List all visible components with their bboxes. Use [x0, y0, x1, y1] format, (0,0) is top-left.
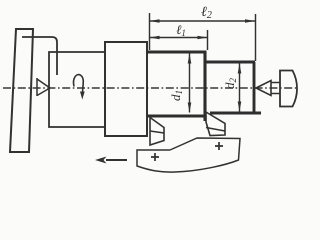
tailstock center neck: [271, 83, 280, 94]
centerline (axis, dash-dot): [3, 87, 296, 89]
dimension d1: [189, 54, 191, 113]
label l1: [176, 22, 186, 38]
driving dog (clamp): [22, 37, 57, 75]
label l2: [201, 5, 212, 21]
plus mark right: [215, 142, 223, 150]
dead center (left, cone at headstock): [37, 78, 50, 96]
dimension d2: [239, 64, 241, 112]
tailstock quill body: [280, 71, 297, 107]
label d2 (rotated): [222, 78, 238, 90]
collar (largest step of workpiece): [105, 42, 147, 136]
cutting tool 2 (at d2 shoulder): [206, 112, 225, 136]
extension line l2 right: [255, 14, 257, 61]
workpiece left journal (section A): [49, 52, 105, 127]
rotation arrow: [74, 75, 84, 93]
plus mark left: [151, 153, 159, 161]
cylinder d1 (machined step, thick lines): [147, 51, 205, 122]
label d1 (rotated): [168, 90, 184, 101]
feed arrow (longitudinal feed, pointing left): [106, 159, 127, 161]
dimension l2: [150, 20, 256, 22]
dimension l1: [150, 37, 208, 39]
faceplate (headstock drive plate): [10, 29, 33, 152]
cylinder d2 (machined step, thick lines): [205, 62, 261, 114]
cutting tool 1 (at d1 shoulder): [150, 118, 164, 146]
tailstock center cone: [256, 81, 271, 96]
extension line left (shared l1/l2): [149, 13, 151, 50]
tool post / slide (holder with break line): [137, 138, 240, 172]
extension line l1 right: [207, 30, 209, 50]
